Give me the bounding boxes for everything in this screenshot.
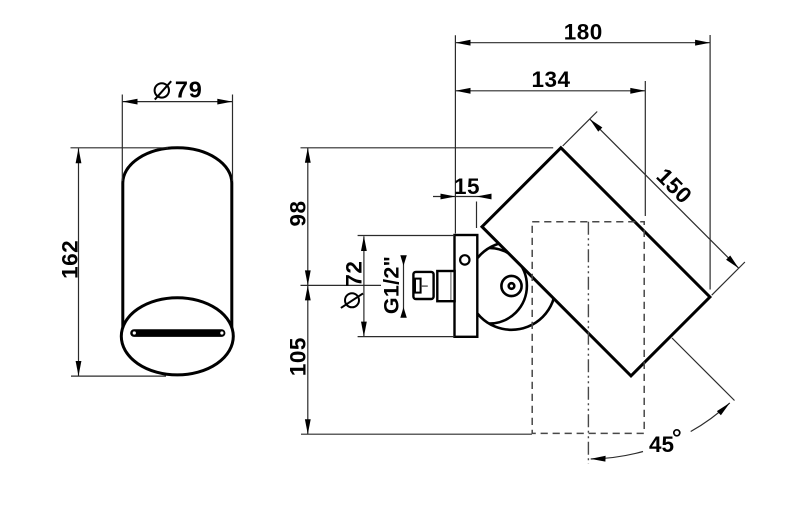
svg-text:79: 79 <box>175 76 203 102</box>
svg-text:134: 134 <box>531 67 570 92</box>
svg-text:162: 162 <box>58 240 83 279</box>
svg-text:98: 98 <box>285 200 310 226</box>
svg-text:15: 15 <box>454 174 480 199</box>
svg-text:G1/2": G1/2" <box>379 256 403 314</box>
svg-text:72: 72 <box>341 261 366 287</box>
svg-text:45: 45 <box>649 432 674 457</box>
svg-text:105: 105 <box>285 337 310 376</box>
svg-text:180: 180 <box>564 19 603 44</box>
